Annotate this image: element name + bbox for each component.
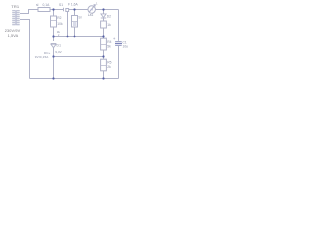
svg-text:F 1,6A: F 1,6A — [68, 3, 79, 7]
svg-text:SI: SI — [78, 15, 81, 19]
svg-text:R5: R5 — [107, 60, 111, 64]
svg-text:sl: sl — [36, 3, 39, 7]
svg-text:9,4V: 9,4V — [55, 50, 62, 54]
svg-text:230V/9V: 230V/9V — [5, 29, 21, 33]
svg-text:9V/0,15A: 9V/0,15A — [35, 55, 50, 59]
svg-text:1,5VA: 1,5VA — [8, 34, 19, 38]
svg-text:R4: R4 — [107, 40, 111, 44]
svg-text:5k: 5k — [107, 45, 111, 49]
svg-text:S1: S1 — [59, 3, 63, 7]
svg-text:D2: D2 — [107, 14, 111, 18]
svg-text:TR1: TR1 — [11, 4, 20, 9]
svg-text:D1: D1 — [57, 43, 62, 47]
svg-text:La1: La1 — [88, 13, 94, 17]
svg-text:2k: 2k — [107, 65, 111, 69]
svg-text:0,1A: 0,1A — [43, 3, 51, 7]
svg-text:1k: 1k — [107, 23, 111, 27]
svg-text:10k: 10k — [57, 22, 63, 26]
svg-text:R2: R2 — [57, 16, 61, 20]
svg-text:10u: 10u — [123, 45, 129, 49]
